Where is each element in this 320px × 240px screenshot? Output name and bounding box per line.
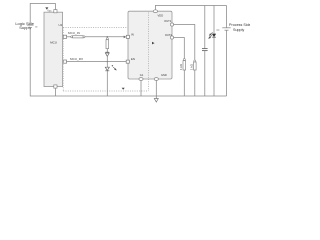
photodiode arrows — [112, 65, 116, 70]
wire MCU_RX — [67, 61, 127, 63]
wire battery top to MCU VCC pin — [30, 4, 55, 26]
pin VCC square top of MCU — [54, 10, 57, 13]
MCU U1 body — [44, 12, 63, 86]
pin VDD ellipse top — [153, 10, 157, 13]
svg-text:OUT1: OUT1 — [164, 19, 172, 23]
pin IN arrow left edge — [124, 36, 127, 39]
wire battery bottom to ground bus — [30, 28, 55, 97]
svg-text:EN: EN — [131, 57, 135, 61]
wire down to photodiode — [106, 62, 108, 68]
wire VDD to top bus — [155, 6, 226, 10]
wire R4 to bus — [194, 70, 196, 96]
battery B1 logic side — [27, 25, 38, 27]
internal isolation barrier dashed — [148, 13, 150, 79]
LED D3 indicator — [212, 34, 216, 37]
junction node — [107, 36, 108, 37]
ground symbol — [154, 99, 158, 103]
junction node RX — [107, 61, 108, 62]
resistor R4 vertical — [194, 60, 197, 70]
LED arrows — [209, 32, 213, 38]
node Process Side Supply label — [229, 23, 251, 32]
net flag VCC near MCU top — [45, 7, 48, 9]
svg-text:G1: G1 — [140, 73, 144, 77]
photodiode D2 — [105, 67, 109, 71]
pin MCU_RX square right edge — [63, 60, 66, 63]
wire top bus to battery B2 — [226, 6, 228, 28]
wire R2 to zener — [106, 49, 108, 53]
wire battery B2 to bus — [226, 30, 228, 96]
wire R3 to bus — [183, 70, 185, 96]
pin OUT2 circle right edge — [170, 36, 173, 39]
svg-text:VDD: VDD — [158, 14, 164, 18]
pin GND2 ellipse bottom — [154, 78, 158, 81]
svg-text:MCU: MCU — [50, 41, 57, 45]
emission arrow inside isolator — [152, 42, 155, 45]
marker triangle on dashed line — [122, 88, 125, 90]
isolator U3 body — [128, 11, 172, 79]
svg-text:1 kΩ: 1 kΩ — [179, 64, 183, 70]
svg-text:1 kΩ: 1 kΩ — [190, 64, 194, 70]
svg-text:U2: U2 — [59, 23, 63, 27]
resistor R3 vertical — [183, 59, 186, 70]
svg-text:MCU_IN: MCU_IN — [68, 31, 80, 35]
wire OUT1 to R4 — [174, 25, 195, 61]
wire GND1 down — [140, 80, 142, 96]
pin EN square left edge — [126, 60, 129, 63]
wire top bus to LED D3 — [213, 6, 215, 34]
resistor R1 horizontal — [71, 36, 85, 38]
node Logic Side Supply label — [15, 21, 34, 30]
wire photodiode to bus — [106, 71, 108, 96]
wire GND2 down — [155, 80, 157, 98]
wire top bus to capacitor C1 — [204, 6, 206, 49]
pin OUT1 circle right edge — [170, 23, 173, 26]
pin MCU_IN square right edge — [63, 35, 66, 38]
svg-text:GND: GND — [161, 73, 167, 77]
zener diode D1 — [105, 52, 109, 56]
svg-text:OUT2: OUT2 — [165, 33, 173, 37]
dashed isolation box — [63, 27, 148, 91]
wire zener to RX line — [106, 56, 108, 61]
svg-text:Process Side: Process Side — [229, 23, 250, 27]
wire capacitor C1 to bus — [204, 51, 206, 96]
svg-text:MCU_RX: MCU_RX — [70, 57, 83, 61]
svg-text:Supply: Supply — [233, 28, 244, 32]
wire MCU gnd pin down — [54, 88, 56, 96]
pin GND square bottom of MCU — [54, 85, 57, 88]
wire resistor to opto input pin — [85, 36, 124, 38]
wire OUT2 to R3 — [174, 38, 185, 59]
wire MCU_IN pin to resistor — [67, 36, 72, 38]
pin GND1 ellipse bottom — [139, 78, 143, 81]
svg-text:Vcc: Vcc — [47, 8, 52, 12]
svg-text:IN: IN — [131, 33, 134, 37]
wire LED D3 to bus — [213, 37, 215, 96]
ground bus bottom — [55, 95, 226, 97]
resistor R2 vertical pulldown — [106, 38, 109, 49]
capacitor C1 — [202, 49, 208, 51]
battery B2 process side — [216, 28, 230, 30]
